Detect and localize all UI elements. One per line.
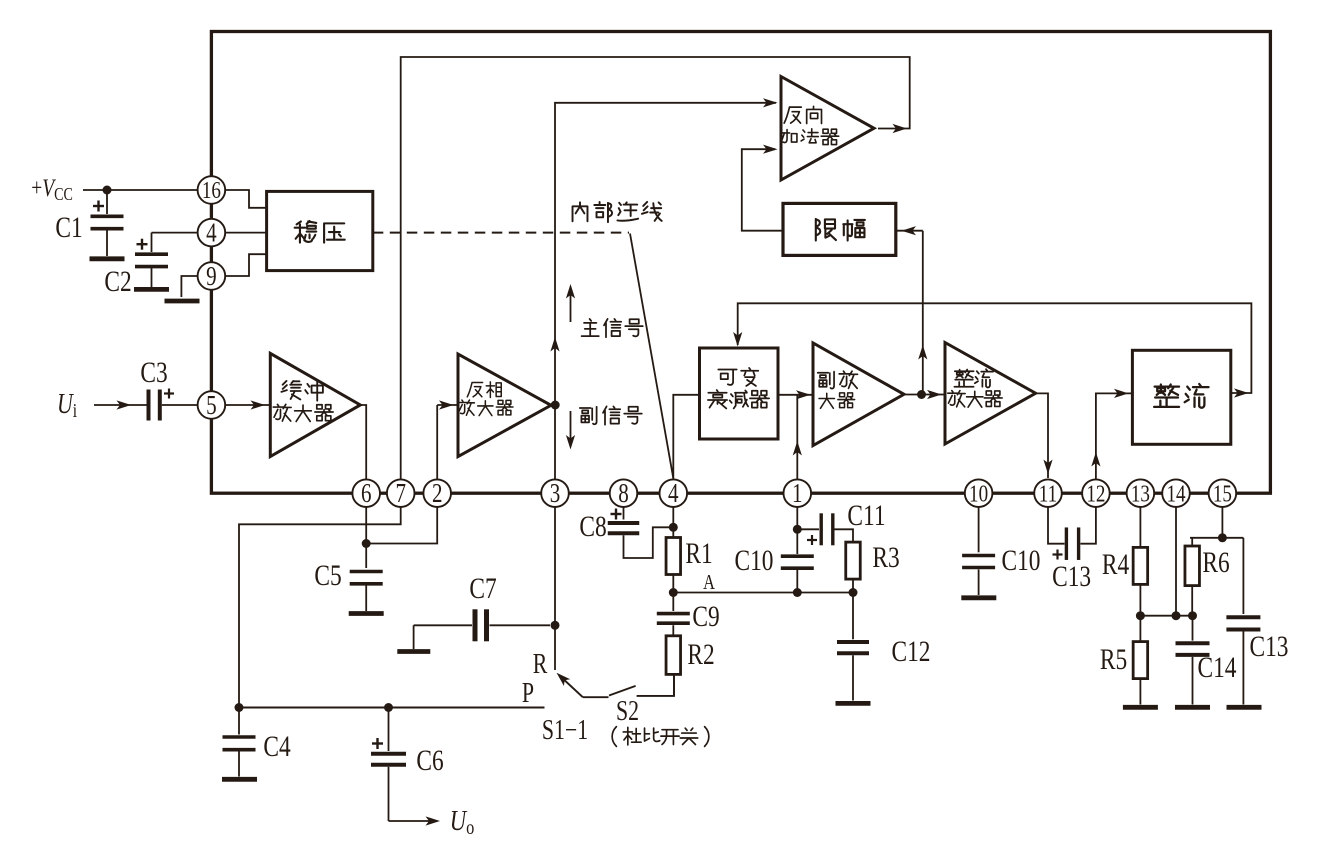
wire pin4 to C2 [152,232,198,234]
diagonal internal connection to pin 4 [630,234,673,479]
svg-text:C7: C7 [469,571,496,604]
svg-text:R2: R2 [687,637,714,670]
svg-text:9: 9 [206,261,217,291]
op-amp 副放大器 (sub amplifier) [813,343,904,446]
wire rect amp out down to pin11 [1036,393,1048,478]
terminal bar below C5 [349,611,384,616]
svg-text:13: 13 [1131,479,1150,507]
wire pin1 down [796,507,798,529]
wire C3 to pin5 [162,404,198,406]
node dot A [669,588,678,597]
wire pin12 up to rectifier [1096,393,1132,479]
ground below C4 [222,777,257,782]
arrow into inverter [437,404,457,406]
wire S1-1 to S2 [583,696,609,698]
switch S1-1 blade [560,676,583,697]
node dot pin1 [793,525,802,534]
wire R5 to ground [1139,679,1141,705]
wire pin1 up to sub amp input [796,395,798,480]
wire R2 bottom to S2 [673,674,675,696]
annotation arrow up (main signal) [570,292,572,322]
wire R4 to node [1139,584,1141,641]
wire sub amp out to rect amp [904,394,944,396]
wire pin10 down to C10b [978,507,980,552]
wire Ui input [94,404,147,406]
capacitor C1 [106,190,108,214]
pin 6 (bottom) [352,479,380,507]
svg-text:8: 8 [618,479,629,509]
wire pin4 to regulator [225,232,266,234]
arrow up on pin1 wire [793,441,802,456]
resistor R3 [846,542,861,579]
arrow up on limiter wire [918,345,927,360]
capacitor C8 (electrolytic) [611,513,622,515]
switch S2 blade [609,686,636,696]
arrow into adder input 2 [763,145,778,154]
wire into limiter from sub-amp output [897,230,923,232]
svg-text:C13: C13 [1052,559,1091,592]
resistor R1 [666,538,681,575]
ground below C12 [836,701,871,706]
pin 5 [198,391,226,419]
resistor R6 [1185,546,1200,586]
wire C7 to ground [414,624,550,626]
arrow on input wire [117,400,132,409]
wire S2 contact to R2 [637,674,674,696]
svg-text:R5: R5 [1100,642,1127,675]
pin 1 (bottom) [784,479,812,507]
capacitor C10a [796,529,798,554]
wire pin2 up to inverter [436,405,438,479]
capacitor C4 [238,708,240,735]
capacitor C6 (electrolytic) [388,708,390,752]
node dot pin4/C8 [669,523,678,532]
pin 11 (bottom) [1034,479,1062,507]
svg-text:14: 14 [1166,479,1185,507]
ground below C10b [961,595,996,600]
wire pin6 down to C5 [365,507,367,568]
svg-text:2: 2 [432,479,443,509]
capacitor C7 [473,609,478,641]
svg-text:16: 16 [202,176,221,204]
pin 9 [198,262,226,290]
capacitor C2 [151,233,153,252]
svg-text:C5: C5 [314,558,341,591]
feedback wire from rectifier to attenuator [738,303,1252,393]
op-amp 整流放大器 (rectifier amplifier) [945,343,1036,445]
node dot pin14 [1172,611,1181,620]
capacitor C11 (electrolytic) [797,528,819,530]
block 限幅 (limiter) [783,203,896,255]
svg-text:5: 5 [206,390,217,420]
wire pin13 down [1139,507,1141,547]
svg-text:C8: C8 [579,509,606,542]
svg-text:3: 3 [550,479,561,509]
wire R1 to node A [672,575,674,593]
wire pin15 node to R6 and C13b [1190,537,1243,539]
svg-text:C2: C2 [104,264,131,297]
node dot inverter output on pin3 line [551,401,560,410]
node dot C4 [235,703,244,712]
arrow up on pin12 wire [1091,452,1100,467]
capacitor C10b [962,554,995,558]
svg-text:7: 7 [395,479,406,509]
wire R3 to A [852,579,854,592]
block 整流 (rectifier) [1132,350,1230,444]
capacitor C14 [1192,616,1194,641]
node dot sub amp output [917,390,926,399]
block 可变衰减器 (variable attenuator) [700,348,779,439]
capacitor C5 [350,570,383,574]
wire pin3 down [554,507,556,670]
resistor R5 [1133,642,1148,679]
ground below C1 [90,256,125,261]
wire Vcc to pin16 [83,189,198,191]
svg-text:R6: R6 [1202,545,1229,578]
node dot C7/pin3 [551,621,560,630]
svg-text:12: 12 [1086,479,1105,507]
node dot C6 [384,703,393,712]
svg-text:A: A [703,571,715,594]
svg-text:C13: C13 [1250,629,1289,662]
wire pin9 to regulator [225,254,266,276]
svg-text:C1: C1 [55,210,82,243]
label 内部连线 [573,202,588,221]
pin 3 (bottom) [541,479,569,507]
op-amp 反相放大器 (inverter) [458,354,551,457]
node dot C10a bottom [793,588,802,597]
pin 7 (bottom) [387,479,415,507]
svg-text:C3: C3 [140,355,167,388]
wire C6 to output [389,820,436,822]
pin 15 (bottom) [1209,479,1237,507]
ground below C2 [134,287,169,292]
svg-text:C12: C12 [892,634,931,667]
wire pin14 down [1175,507,1177,616]
resistor R2 [666,636,681,675]
svg-text:R3: R3 [872,540,899,573]
svg-text:C6: C6 [416,743,443,776]
arrow into buffer amp [251,400,266,409]
wire pin16 to regulator [225,190,266,208]
pin 12 (bottom) [1082,479,1110,507]
svg-text:S2: S2 [616,697,639,727]
arrow into attenuator top [733,332,742,347]
svg-text:15: 15 [1213,479,1232,507]
pin 4 (bottom) [660,479,688,507]
svg-text:S1−1: S1−1 [542,716,588,746]
pin 4 [198,219,226,247]
svg-text:10: 10 [969,479,988,507]
wire R6 down to node [1191,586,1193,616]
label 杜比开关 [612,727,616,747]
svg-text:11: 11 [1039,479,1057,507]
wire pin15 down [1221,507,1223,538]
node dot pin15 [1218,533,1227,542]
svg-text:C10: C10 [1002,543,1041,576]
op-amp 反向加法器 (inverting adder) [781,77,874,181]
ground below C13b [1227,705,1262,710]
arrow into adder input 1 [763,98,778,107]
arrow on rectifier output [1234,388,1249,397]
capacitor C12 [852,593,854,640]
capacitor C3 [147,390,151,421]
svg-text:C4: C4 [263,729,291,762]
annotation arrow down (sub signal) [570,411,572,441]
svg-text:C14: C14 [1198,650,1237,683]
pin 2 (bottom) [423,479,451,507]
wire pin11 down to C13a [1048,507,1065,544]
wire pin4 down [672,507,674,538]
arrow into rect amp [927,390,942,399]
wire sub-amp node up to limiter [922,231,924,395]
svg-text:6: 6 [361,479,372,509]
capacitor C13b [1242,538,1244,614]
wire pin3 to adder input 1 [555,103,776,480]
node dot pin6/pin2 join [362,539,371,548]
wire pin7 feedback to adder output [401,57,910,479]
capacitor C9 [672,593,674,612]
arrow down into pin11 [1043,460,1052,475]
wire adder input 2 from limiter [742,149,783,231]
pin 8 (bottom) [610,479,638,507]
node A wire [673,592,853,594]
node dot Vcc/C1 [103,186,112,195]
ground below C14 [1175,705,1210,710]
svg-text:4: 4 [668,479,679,509]
svg-text:R1: R1 [685,536,712,569]
label 副信号 [580,407,597,424]
ground below R5 [1123,705,1158,710]
pin 13 (bottom) [1127,479,1155,507]
pin 14 (bottom) [1162,479,1190,507]
node dot R6/C14 [1188,611,1197,620]
svg-text:C11: C11 [847,498,885,531]
op-amp 缓冲放大器 (buffer) [270,353,360,456]
wire pin4 up to attenuator [673,395,698,480]
svg-text:R: R [533,650,548,680]
svg-text:C9: C9 [692,599,719,632]
pin 16 [198,176,226,204]
label 主信号 [582,319,599,336]
resistor R4 [1133,547,1148,584]
svg-text:C10: C10 [735,543,774,576]
arrow into sub amp [796,390,811,399]
capacitor C13a (electrolytic) [1065,527,1068,560]
wire P line [239,707,545,709]
node dot R4/R5 [1136,611,1145,620]
ground below pin9 [165,299,200,304]
arrow into rectifier block [1114,389,1129,398]
wire pin9 to ground [181,276,197,297]
svg-text:P: P [522,679,534,709]
IC package boundary [211,32,1270,494]
wire pin7 down to switch line [239,507,401,708]
svg-text:R4: R4 [1102,547,1130,580]
block 稳压 (regulator) [267,191,373,270]
node dot R3/C12 [849,588,858,597]
pin 10 (bottom) [965,479,993,507]
arrow up on pin3 line (sub signal) [550,337,559,352]
svg-text:4: 4 [206,218,217,248]
wire pin8 down to C8 [623,507,625,520]
wire adder output arrowhead [893,124,908,133]
ground left of C7 [397,649,430,654]
dashed internal connection line [373,232,629,234]
wire pin2 down join [366,507,437,544]
node wire 13-14-R6 [1140,615,1192,617]
wire attenuator to sub amp [778,394,812,396]
wire pin5 to buffer amp [225,404,269,406]
wire buffer out to pin6 [360,405,366,479]
svg-text:1: 1 [792,479,803,509]
